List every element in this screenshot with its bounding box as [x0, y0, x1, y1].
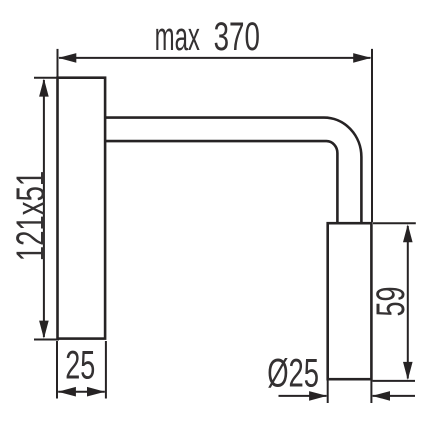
svg-text:370: 370 — [214, 15, 260, 59]
arrowhead down (59) — [403, 362, 413, 380]
svg-text:59: 59 — [369, 287, 413, 317]
dimension line (25) — [58, 391, 105, 393]
arrowhead pointing right (Ø25) — [309, 391, 327, 401]
arrowhead left (max 370) — [58, 53, 76, 63]
extension line top-left — [34, 77, 59, 79]
svg-text:Ø25: Ø25 — [267, 351, 319, 395]
svg-text:25: 25 — [65, 343, 95, 387]
arrowhead left (25) — [58, 387, 76, 397]
dimension line right shaft (Ø25) — [373, 395, 415, 397]
dimension line left shaft (Ø25) — [279, 395, 327, 397]
extension line left (Ø25) — [327, 381, 329, 404]
extension line bottom-left — [34, 339, 59, 341]
arrowhead down (121x51) — [39, 321, 49, 339]
arrowhead right (max 370) — [353, 53, 371, 63]
extension line right (top, down to lamp head) — [371, 49, 373, 222]
dimension line left vertical — [43, 80, 45, 337]
extension line top (59) — [373, 222, 416, 224]
arrowhead right (25) — [87, 387, 105, 397]
extension line right (25) — [105, 341, 107, 399]
lamp arm outer contour — [106, 118, 362, 223]
extension line left (top) — [57, 49, 59, 77]
arrowhead pointing left (Ø25) — [372, 391, 390, 401]
arrowhead up (121x51) — [39, 79, 49, 97]
svg-text:max: max — [155, 15, 200, 59]
extension line right (Ø25) — [370, 381, 372, 404]
extension line bottom (59) — [373, 380, 416, 382]
dimension line top — [59, 57, 371, 59]
svg-text:121x51: 121x51 — [9, 171, 53, 262]
dimension line right vertical (59) — [407, 226, 409, 379]
wall mounting plate — [58, 78, 106, 339]
lamp arm inner contour — [106, 141, 338, 223]
extension line left (25) — [56, 341, 58, 399]
arrowhead up (59) — [403, 224, 413, 242]
lamp head cylinder — [328, 223, 372, 379]
